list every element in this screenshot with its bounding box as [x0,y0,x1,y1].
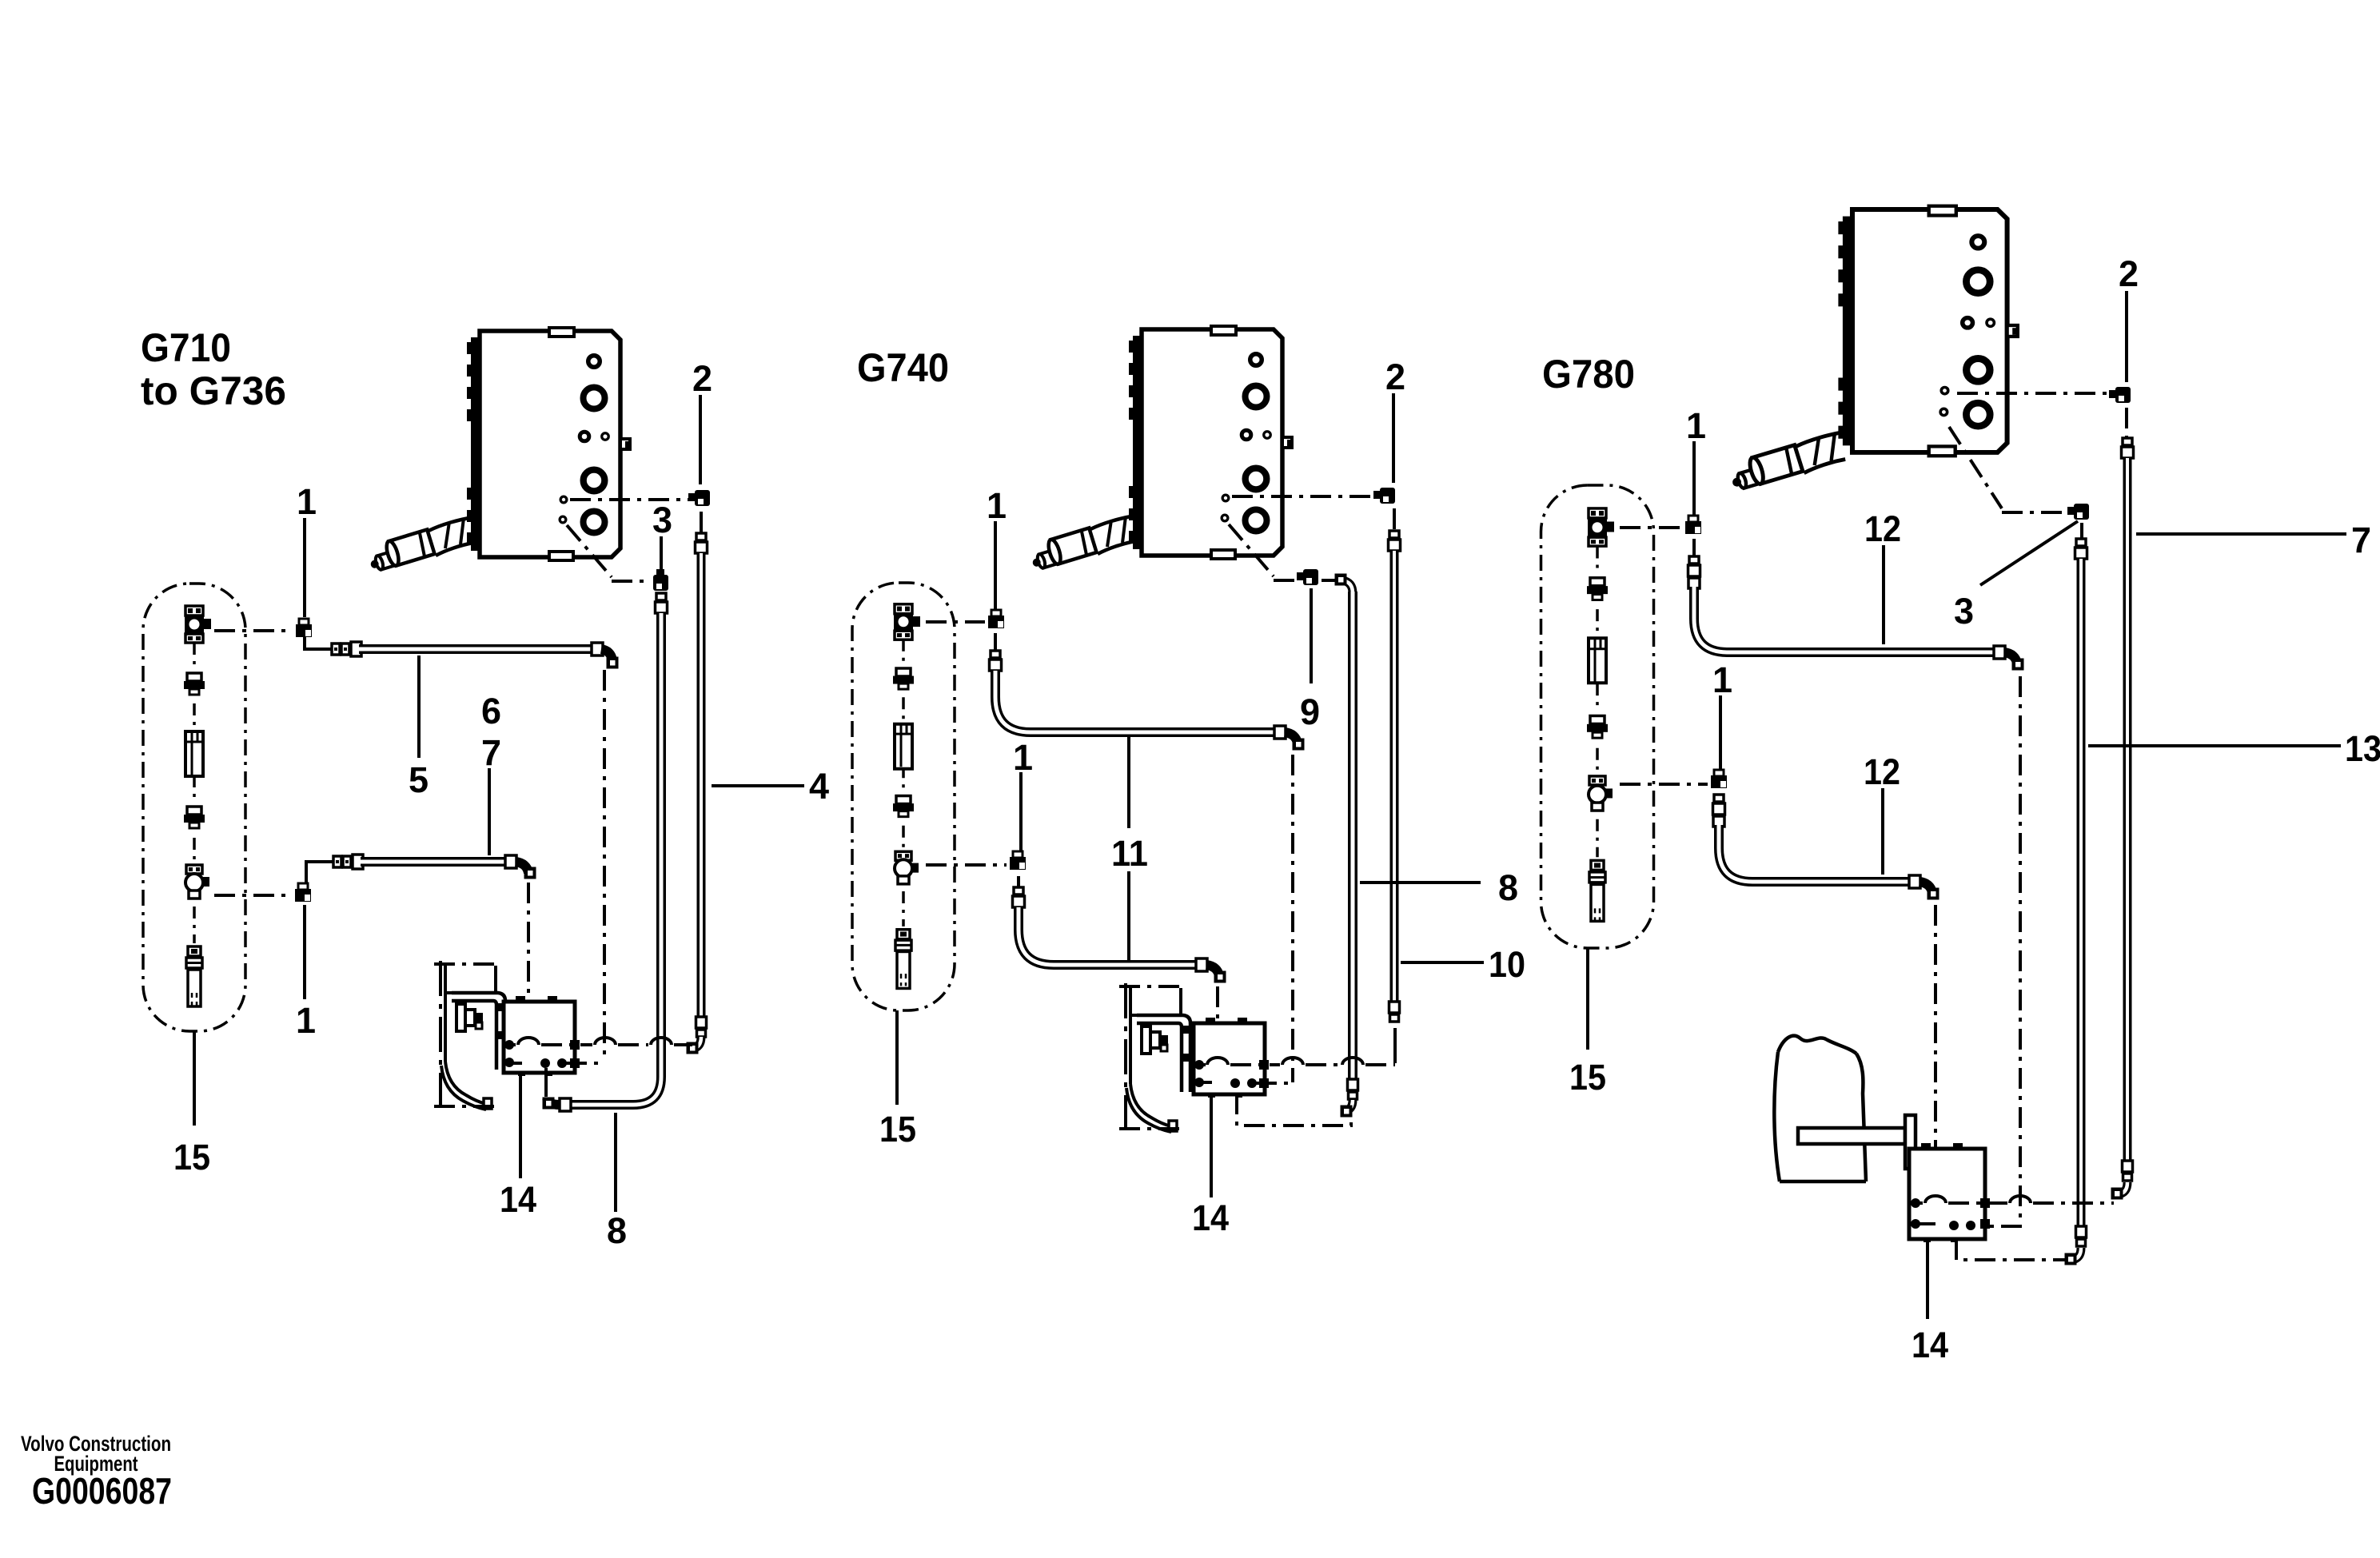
leader line label 14 [519,1074,522,1178]
machine frame edge lines [1124,983,1127,1130]
valve block bottom tab [1929,446,1955,456]
svg-text:15: 15 [1569,1057,1606,1098]
fitting 9 [1303,569,1318,585]
svg-text:G710: G710 [141,325,231,370]
hose 11 upper right band [1274,726,1286,739]
fitting 1 lower (G780) [1714,770,1724,776]
center line: stack to fitting 1 upper [214,629,293,632]
frame top center line [1119,985,1183,988]
svg-text:8: 8 [607,1210,627,1251]
leader line label 2 [699,395,702,484]
stack center line [1596,547,1599,573]
port circle mid right [1987,319,1994,326]
port circle small top [588,356,600,368]
mounting angle bracket [452,993,505,1070]
port circle mid left [1242,430,1251,440]
connector tip [1730,468,1760,491]
stack fitting: elbow adapter [186,865,202,874]
leader line label 1 upper (G740) [994,521,997,609]
stack fitting: nut lower [187,807,201,815]
leader line label 12 upper [1882,545,1885,644]
svg-text:14: 14 [500,1179,536,1220]
fitting 2 (G740) [1380,488,1395,504]
connector tip [369,551,397,572]
frame bottom center line [1119,1127,1182,1130]
tube 10 bottom crimp [1389,1002,1400,1013]
leader line label 8 [614,1113,617,1212]
plate edge bolts [570,1040,580,1050]
svg-text:14: 14 [1192,1197,1229,1238]
svg-text:14: 14 [1912,1325,1948,1365]
port circle small top [1250,354,1262,366]
hose 11 upper stub line [994,633,997,652]
leader line label 1 lower [303,905,306,999]
hose 8 left crimp [560,1098,571,1111]
svg-text:1: 1 [1686,405,1706,446]
hose 12 upper stub line [1692,539,1696,558]
tube 10 top crimp [1389,531,1399,538]
connector coupler body [385,529,435,567]
hose 5 right band [592,643,603,655]
valve block top tab [549,328,574,337]
leader line label 4 [712,784,804,787]
leader line label 3 (diagonal) [1980,521,2078,585]
svg-text:1: 1 [1013,737,1033,778]
frame top center line [434,962,498,966]
center line: hose 12 lower elbow down [1934,905,1937,1225]
svg-text:2: 2 [692,358,712,399]
tube 7 bottom crimp [2123,1161,2133,1172]
plate center line row 2 (G740) [1203,1081,1212,1084]
leader line label 1 upper [303,518,306,617]
center line: port H to fitting 9 [1229,524,1274,576]
svg-text:15: 15 [173,1137,210,1177]
connector tip [1031,549,1058,570]
hose 8 left elbow [547,1098,560,1105]
valve block bottom tab [549,552,573,560]
hose 12 lower [1719,825,1911,882]
leader line label 7 [488,768,491,855]
valve block top tab [1929,206,1956,216]
hose 11 lower right elbow [1206,965,1219,976]
tube 4 [697,553,706,1018]
center line: port F to fitting 2 [570,498,692,501]
leader line label 2 (G780) [2125,291,2128,382]
leader lines label 11 [1127,737,1130,828]
center line: fitting 9 to hose 8 elbow [1322,579,1337,582]
hose 12 lower right elbow [1920,882,1932,893]
hose 5 right elbow [601,649,612,660]
port ring large middle [1246,468,1267,490]
plate short connector row 2 (G780) [1916,1222,1935,1225]
svg-text:1: 1 [296,1000,316,1041]
clamp bolt detail [1142,1026,1150,1054]
support beam (G780) [1798,1128,1905,1144]
frame top plate [445,966,496,993]
svg-text:12: 12 [1864,508,1901,549]
stack fitting: union block [1589,508,1606,518]
valve block left mounting band [471,337,479,551]
hose 8 upper crimp below fitting 3 [656,593,666,600]
valve block U3 (G780) [1730,206,2018,491]
plate bottom center line to tube 13 (G780) [1956,1239,2067,1260]
stack center line [193,643,196,668]
tube 7 [2123,458,2132,1162]
leader line label 15 (G780) [1586,948,1589,1050]
valve block right side tab [2007,325,2018,337]
dashed enclosure for fitting kit 15 [1541,485,1654,948]
plate center line row 1 (G740) with hops [1203,1063,1206,1066]
svg-text:10: 10 [1489,944,1525,985]
stack fitting: hose stub connector [188,946,201,956]
valve block right side tab [620,439,630,449]
hose 11 lower [1019,907,1198,965]
leader line label 14 (G740) [1210,1097,1213,1197]
hose 8 (G740) bottom elbow [1344,1100,1353,1111]
stack fitting: hose stub connector [897,930,910,939]
port circle H (line 3 tap) [1222,515,1228,521]
leader line label 14 (G780) [1926,1241,1929,1319]
stack fitting: nut lower [1590,715,1605,723]
mounting plate 14 [1194,1023,1265,1094]
port circle small top [1971,236,1984,249]
stack fitting: elbow adapter [895,851,911,860]
stack fitting: nut upper [1590,578,1605,586]
svg-text:3: 3 [652,500,672,540]
supply hose connector at block lower left [1730,432,1845,491]
fitting 1 upper (G780) [1688,516,1698,522]
dashed enclosure for fitting kit 15 [143,584,245,1031]
hose 12 lower right band [1909,875,1920,888]
hose 12 upper right elbow [2004,652,2017,663]
plate bolt holes [504,1040,514,1050]
stack fitting: union block [895,604,912,614]
center line: fitting 3 down to tube 13 [2080,523,2083,539]
port circle F (line 2 tap) [560,496,567,503]
port ring large middle [1967,359,1990,382]
svg-text:7: 7 [481,732,501,773]
tube 4 top crimp [696,533,706,540]
leader line label 1 upper (G780) [1692,441,1696,515]
machine frame (G740) [1119,983,1190,1132]
leader line label 15 [193,1031,196,1126]
plate center line row 1 with hops [513,1043,516,1046]
leader line label 9 [1310,588,1313,683]
hose 5 [359,644,592,654]
svg-text:15: 15 [879,1109,916,1150]
tube 10 [1390,551,1399,1003]
svg-text:4: 4 [809,766,829,807]
center line: hose 11 upper elbow down [1291,755,1294,1082]
svg-text:to G736: to G736 [141,369,286,413]
port circle H (line 3 tap) [560,516,566,523]
stack fitting: sleeve cylinder [895,724,912,769]
tube 13 lower elbow [2071,1248,2081,1260]
fitting 3 (G780) [2074,504,2089,520]
tube 13 bottom crimp [2076,1226,2087,1237]
valve block right side tab [1282,437,1292,448]
hose 8 (G740) bottom crimp [1348,1079,1358,1090]
port circle mid right [602,433,609,440]
leader line label 15 (G740) [895,1010,899,1105]
plate edge bolts (G780) [1980,1198,1990,1208]
hose 7 left crimp [333,856,341,867]
fitting 3 [653,575,668,591]
hose 11 upper [995,671,1276,732]
plate bolt holes (G740) [1194,1060,1204,1070]
hose 11 lower stub line [1017,876,1020,889]
center line: hose 12 upper elbow down [1976,676,2020,1226]
hose 7 right elbow [516,862,528,873]
hose 12 upper [1694,587,1995,652]
port ring large upper [584,388,605,409]
svg-text:G780: G780 [1542,352,1635,396]
hose 8 (G740) [1348,592,1357,1081]
frame top plate [1130,988,1181,1015]
stack center line [902,640,905,664]
supply hose connector at block lower left [1031,516,1135,571]
svg-text:13: 13 [2345,728,2380,769]
hose 5 left connector line from fitting 1 [305,637,332,649]
fitting 1 lower [298,883,308,890]
port ring large lower [1966,403,1990,426]
leader line label 8 (G740) [1360,881,1481,884]
leader line label 1 lower (G780) [1719,695,1722,769]
svg-text:11: 11 [1111,833,1148,874]
port ring large upper [1966,270,1990,293]
connector coupler body [1748,445,1803,485]
leader line label 10 [1401,961,1484,964]
port ring large upper [1246,386,1267,408]
mounting angle bracket [1137,1015,1190,1092]
stack fitting: hose stub connector [1591,860,1604,870]
svg-text:7: 7 [2351,520,2371,560]
center line: stack to fitting 1 upper (G780) [1620,526,1682,529]
hose 12 lower crimp [1714,795,1724,802]
center line: hose 11 lower elbow down [1216,986,1219,1081]
valve block left mounting band [1843,217,1852,446]
fitting 2 (G780) [2115,387,2131,403]
leader line label 7 [2136,532,2346,536]
fitting 2 [695,490,710,506]
tube 4 bottom crimp [696,1017,707,1028]
dashed enclosure for fitting kit 15 [852,583,955,1010]
beam end bar (G780) [1905,1115,1916,1169]
valve block body [480,331,620,557]
stack fitting: nut lower [896,796,911,804]
frame bottom center line [434,1105,496,1108]
leader line label 5 [417,655,421,758]
center line: stack to fitting 1 upper (G740) [926,620,985,624]
machine frame edge lines [439,961,442,1108]
center line: fitting 2 down to tube 4 [700,512,703,534]
port ring large middle [584,470,605,492]
port circle mid left [1963,318,1973,328]
center line: hose 5 elbow down to plate [603,670,606,1062]
valve block U1 (G710) [369,328,631,572]
frame lower curved edge [1126,1084,1171,1132]
hose 11 upper right elbow [1285,732,1298,743]
svg-text:G740: G740 [857,345,949,390]
stack fitting: sleeve cylinder [1589,638,1606,683]
svg-text:G0006087: G0006087 [32,1470,172,1512]
connector coupler body [1046,528,1097,565]
port ring large lower [584,512,605,533]
center line: hose 7 elbow down to plate [527,883,530,1063]
hose 12 lower stub line [1717,795,1720,798]
stack fitting: sleeve cylinder [185,731,203,776]
port ring large lower [1246,510,1267,532]
plate bolt holes (G780) [1911,1198,1920,1208]
center line: stack to fitting 1 lower [214,894,293,897]
hose 5 left crimp [332,644,340,655]
hose 8 (G740) top elbow [1342,580,1353,593]
svg-text:1: 1 [297,481,317,522]
svg-text:5: 5 [409,759,429,800]
center line: stack to fitting 1 lower (G780) [1620,783,1708,786]
svg-text:12: 12 [1864,751,1900,792]
support post (G780) [1774,1036,1866,1181]
hose 8 [571,613,661,1105]
valve block bottom tab [1211,550,1235,559]
valve block body [1852,209,2007,452]
port circle F (line 2 tap) [1222,495,1229,501]
center line: stack to fitting 1 lower (G740) [926,863,1007,867]
leader line label 1 lower (G740) [1019,772,1023,852]
svg-text:2: 2 [2119,253,2139,294]
port circle mid right [1264,432,1271,439]
port circle mid left [580,432,589,441]
mounting plate 14 [504,1002,575,1073]
port circle F (line 2 tap) [1941,387,1947,393]
tube 13 [2077,559,2086,1228]
hose 11 upper crimp [991,651,1000,658]
plate bottom center line to hose 8 (G740) [1237,1094,1351,1126]
tube 7 lower elbow [2118,1182,2127,1194]
valve block left mounting band [1133,336,1141,549]
plate edge bolts (G740) [1259,1060,1269,1070]
port circle H (line 3 tap) [1940,408,1947,415]
center line: port H to fitting 3 [567,525,612,577]
tube 10 link line to plate row [1393,1028,1397,1063]
plate center line row 2 [513,1062,522,1065]
svg-text:1: 1 [987,485,1007,526]
leader line label 13 [2088,744,2341,747]
frame lower curved edge [441,1062,486,1110]
stack fitting: nut upper [187,673,201,681]
plate center line row 1 (G780) with hops [1920,1201,1923,1205]
tube 13 top crimp [2076,539,2086,546]
hose 7 right band [505,855,516,868]
center line: fitting 2 down to tube 7 [2125,408,2128,438]
fitting 1 upper (G740) [991,610,1001,616]
plate to hose 8 connector line [544,1068,548,1097]
center line: port H to fitting 3 (G780) [1949,427,2002,508]
tube 7 top crimp [2123,438,2132,445]
svg-text:2: 2 [1385,357,1405,397]
stack fitting: elbow adapter [1589,776,1605,785]
stack fitting: nut upper [896,668,911,676]
hose 12 upper right band [1994,646,2005,659]
svg-text:9: 9 [1300,691,1320,732]
hose 7 left connector line from fitting 1 lower [306,862,333,886]
svg-text:6: 6 [481,691,501,731]
tube 4 lower elbow [692,1037,701,1049]
leader line label 2 (G740) [1392,393,1395,483]
stack fitting: union block [185,606,203,616]
supply hose connector at block lower left [369,517,473,572]
center line: fitting 2 down to tube 10 [1393,508,1396,531]
valve block body [1142,329,1282,556]
valve block top tab [1211,326,1236,335]
fitting 1 lower (G740) [1013,851,1023,858]
center line: port F to fitting 2 (G780) [1957,392,2111,395]
clamp bolt detail [456,1004,465,1031]
hose 11 lower crimp [1014,887,1023,895]
leader line label 3 [660,536,663,571]
svg-text:3: 3 [1954,591,1974,632]
mounting plate 14 [1909,1149,1985,1239]
valve block U2 (G740) [1031,326,1293,571]
hose 12 upper crimp [1689,556,1699,564]
center line: port F to fitting 2 (G740) [1232,495,1377,498]
svg-text:8: 8 [1498,867,1518,908]
svg-text:1: 1 [1712,659,1732,700]
machine frame (G710) [434,961,505,1110]
leader line label 12 lower [1881,788,1884,875]
hose 11 lower right band [1196,958,1207,971]
hose 7 [361,857,505,867]
fitting 1 upper [299,619,309,625]
